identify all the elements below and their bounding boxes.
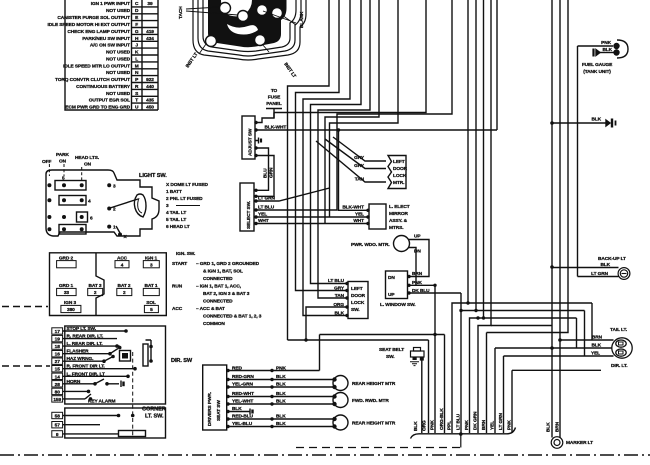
svg-text:FLASHER: FLASHER [67,349,90,355]
svg-text:LT BLU: LT BLU [456,413,462,430]
light sw slider row4 [59,225,86,235]
horizontal H340 [288,339,429,341]
dir sw blades [85,349,118,399]
LEFT DOOR LOCK MTR box [388,156,406,189]
svg-text:ORG-BLK: ORG-BLK [439,408,445,430]
svg-text:INST LT: INST LT [282,62,297,80]
svg-text:GRN: GRN [269,167,275,178]
svg-text:18: 18 [55,344,61,350]
svg-text:39: 39 [147,1,153,7]
staircase F7 to door lt blu [330,0,399,217]
svg-text:IDLE SPEED MOTOR HI EXT OUTPUT: IDLE SPEED MOTOR HI EXT OUTPUT [48,22,131,28]
horizontal H334.5 [320,335,445,371]
BLK ground wire [552,122,606,124]
svg-text:BLK: BLK [276,399,286,405]
light sw contact arm [110,199,138,208]
wire GRY 1 diagonal [333,137,386,161]
svg-text:LT GRN: LT GRN [498,412,504,430]
switch terminal dots [254,121,257,225]
svg-text:BLU: BLU [263,168,269,178]
svg-text:440: 440 [146,84,154,90]
svg-text:BRN: BRN [481,419,487,430]
IGN SW box [50,253,167,316]
ECM circuit numbers [146,1,154,111]
svg-text:J: J [135,43,138,49]
svg-text:PWR. WDO. MTR.: PWR. WDO. MTR. [351,242,390,248]
svg-text:GRY: GRY [334,286,345,292]
svg-text:DIR. SW: DIR. SW [171,358,193,364]
svg-text:5: 5 [150,307,153,313]
svg-text:NOT USED: NOT USED [106,50,131,56]
svg-text:TAIL LT.: TAIL LT. [610,327,627,333]
svg-text:3: 3 [113,184,116,190]
svg-text:LIGHT SW.: LIGHT SW. [139,173,167,179]
svg-text:BAT 2, IGN 3 & BAT 3: BAT 2, IGN 3 & BAT 3 [203,291,250,297]
svg-text:CONTINUOUS BATTERY: CONTINUOUS BATTERY [76,84,131,90]
light sw dashed drops [49,164,81,180]
IGN SW terminal labels [59,256,158,307]
svg-text:435: 435 [146,98,154,104]
svg-text:450: 450 [146,105,154,111]
svg-text:6: 6 [90,216,93,222]
svg-text:BLK-WHT: BLK-WHT [342,205,364,211]
staircase F9 to select lt blu [255,0,452,210]
DIR SW terminal boxes [52,328,63,402]
svg-text:TACH: TACH [178,6,184,19]
svg-text:IGN 1 PWR INPUT: IGN 1 PWR INPUT [91,1,130,7]
svg-text:T: T [135,98,138,104]
svg-text:BLK: BLK [276,374,286,380]
wire BRN tail [560,339,614,341]
wire BLK tail [495,347,612,349]
svg-text:MTRS.: MTRS. [389,225,403,231]
svg-text:2: 2 [94,290,97,296]
svg-text:R. FRONT DIR LT.: R. FRONT DIR LT. [67,364,105,370]
svg-text:80: 80 [55,389,61,395]
svg-text:LT. SW.: LT. SW. [145,414,164,420]
DIR SW row wires [63,331,135,399]
cluster bulb sockets [206,3,283,47]
svg-text:LT BLU: LT BLU [328,278,345,284]
wire GRY 2 diagonal [325,139,386,169]
FUEL GAUGE [578,45,614,47]
bracket labels [413,408,513,431]
svg-text:PNK: PNK [601,40,611,46]
svg-text:DOOR: DOOR [393,166,408,172]
svg-text:L. ELECT: L. ELECT [389,204,410,210]
svg-text:HORN: HORN [67,379,81,385]
svg-text:NOT USED: NOT USED [106,57,131,63]
svg-text:15: 15 [55,367,61,373]
L ELECT MIRROR box [369,204,386,229]
svg-text:DOOR: DOOR [351,293,366,299]
wire hz370 right [512,369,601,371]
wire blk-wht drop to mirror [339,130,370,210]
svg-text:BLK: BLK [276,382,286,388]
TO FUSE PANEL label [266,88,282,107]
svg-text:X DOME LT FUSED: X DOME LT FUSED [166,182,208,188]
IGN SW legend [172,251,262,327]
dashed line to ign sw [2,306,48,308]
svg-text:UP: UP [388,292,395,298]
svg-text:L. FRONT DIR. LT: L. FRONT DIR. LT [67,371,105,377]
svg-text:BLK: BLK [591,117,601,123]
svg-text:PPL: PPL [447,421,453,430]
wire YEL tail [504,355,614,357]
svg-text:BLANK: BLANK [299,11,305,28]
fuse panel connector [266,109,282,119]
svg-text:4: 4 [121,262,124,268]
svg-text:ACC: ACC [172,306,183,312]
wire WHT to mirror [255,223,369,225]
svg-text:YEL-WHT: YEL-WHT [232,399,253,405]
svg-text:YEL-GRN: YEL-GRN [232,382,254,388]
svg-text:UP: UP [414,234,421,240]
svg-text:DK GRN: DK GRN [473,411,479,430]
svg-text:MIRROR: MIRROR [389,211,408,217]
blk stub connector [247,409,253,415]
staircase F1 [288,0,330,340]
svg-text:INST LT: INST LT [185,52,200,70]
svg-text:& IGN 1, BAT, SOL: & IGN 1, BAT, SOL [203,269,243,275]
svg-text:ECM PWR GRD TO ENG GRD: ECM PWR GRD TO ENG GRD [65,105,130,111]
svg-text:HAZ WRNG.: HAZ WRNG. [67,356,94,362]
staircase F5 to door tan [318,0,370,298]
staircase F3 to door blk [303,0,350,316]
svg-text:14: 14 [55,374,61,380]
svg-text:C: C [135,1,139,7]
svg-text:BLK: BLK [602,47,612,53]
svg-text:A/C ON SW INPUT: A/C ON SW INPUT [90,43,130,49]
light sw C contact [134,194,146,217]
svg-text:IGN. SW.: IGN. SW. [176,251,195,257]
svg-text:CONNECTED: CONNECTED [203,299,233,305]
svg-text:BLK: BLK [276,414,286,420]
svg-text:NOT USED: NOT USED [106,70,131,76]
ECM table row labels [48,1,131,111]
svg-text:PARK/NEU SW INPUT: PARK/NEU SW INPUT [82,36,130,42]
svg-text:FWD. RWD. MTR: FWD. RWD. MTR [352,398,389,404]
svg-text:LEFT: LEFT [393,159,405,165]
svg-text:419: 419 [146,29,154,35]
svg-text:TAN: TAN [335,293,345,299]
svg-text:L. REAR DIR. LT.: L. REAR DIR. LT. [67,341,103,347]
svg-text:SEAT SW: SEAT SW [216,400,222,421]
svg-text:922: 922 [146,77,154,83]
svg-text:BRN: BRN [555,421,561,432]
svg-text:16: 16 [55,352,61,358]
svg-text:3: 3 [150,262,153,268]
svg-text:(TANK UNIT): (TANK UNIT) [583,69,611,75]
svg-text:2 PNL LT FUSED: 2 PNL LT FUSED [166,196,203,202]
seat wire labels [232,366,286,428]
svg-text:SEAT BELT: SEAT BELT [379,347,404,353]
svg-text:TAN: TAN [355,177,365,183]
svg-text:17: 17 [55,329,61,335]
svg-text:R. REAR DIR. LT.: R. REAR DIR. LT. [67,334,104,340]
svg-text:LOCK: LOCK [393,173,407,179]
svg-text:27: 27 [55,359,61,365]
CORNER LT SW box [65,408,166,438]
ECM connector table [65,0,158,110]
svg-text:LT GRN: LT GRN [591,271,609,277]
svg-text:BLK-WHT: BLK-WHT [265,125,287,131]
svg-text:1 BATT: 1 BATT [166,189,182,195]
staircase F2 [296,0,349,291]
svg-text:19: 19 [55,337,61,343]
svg-text:BLK: BLK [591,343,601,349]
ground connector [606,119,616,128]
instrument cluster connector [193,0,306,60]
svg-text:CANISTER PURGE SOL OUTPUT: CANISTER PURGE SOL OUTPUT [57,15,130,21]
svg-text:LEFT: LEFT [351,286,363,292]
DIR SW row labels [67,326,116,405]
svg-text:159: 159 [53,397,61,403]
svg-text:COMMON: COMMON [203,321,225,327]
dir sw slider bar [143,344,148,366]
svg-text:G: G [135,29,139,35]
svg-text:RED-WHT: RED-WHT [232,391,254,397]
svg-text:PNK: PNK [507,420,513,430]
flasher symbol [120,351,131,362]
svg-text:BLK: BLK [600,262,610,268]
staircase F4 to door org [311,0,362,284]
svg-text:PNK: PNK [276,366,286,372]
bottom dash-dot border [0,454,650,456]
wire fuse feed from top [274,0,426,113]
corner slider [119,431,146,437]
svg-text:DIR. LT.: DIR. LT. [611,363,627,369]
ADJUST SW box [242,116,255,159]
svg-text:– GRD 1, GRD 2 GROUNDED: – GRD 1, GRD 2 GROUNDED [196,261,260,267]
svg-text:9: 9 [56,432,59,438]
svg-text:LT BLU: LT BLU [258,205,275,211]
IGN SW terminal boxes [57,261,160,313]
svg-text:FUEL GAUGE: FUEL GAUGE [582,62,613,68]
svg-text:MARKER LT: MARKER LT [566,440,593,446]
svg-text:F: F [135,22,138,28]
seat motor 1 [333,376,348,391]
svg-text:DN: DN [414,249,421,255]
svg-text:434: 434 [146,36,154,42]
svg-text:IDLE SPEED MTR LO OUTPUT: IDLE SPEED MTR LO OUTPUT [63,63,130,69]
svg-text:WHT: WHT [353,218,364,224]
svg-text:ORG: ORG [422,420,428,431]
L WINDOW SW box [386,271,408,299]
svg-text:STOP LT. SW.: STOP LT. SW. [67,326,96,332]
cluster pointer lines [186,7,296,54]
svg-text:BRN: BRN [592,335,603,341]
light sw slider row2 [59,196,86,206]
svg-text:OFF: OFF [42,159,51,165]
svg-text:BLK: BLK [232,406,242,412]
bracket verticals [422,285,512,433]
svg-text:BLK: BLK [413,421,419,431]
dashed dir sw vertical [132,352,134,437]
svg-text:ORG: ORG [333,302,344,308]
right bundle verticals [552,0,578,438]
svg-text:RED: RED [232,366,242,372]
svg-text:NOT USED: NOT USED [106,8,131,14]
SELECT SW box [240,183,254,231]
svg-text:BLK: BLK [334,311,344,317]
svg-text:CHECK ENG LAMP OUTPUT: CHECK ENG LAMP OUTPUT [67,29,130,35]
svg-text:L: L [135,57,138,63]
svg-text:5 TAIL LT: 5 TAIL LT [166,217,186,223]
svg-text:FUSE: FUSE [268,95,281,101]
adjust sw connector stub [255,138,261,144]
svg-text:PANEL: PANEL [266,101,282,107]
svg-text:28: 28 [55,382,61,388]
tail light bulb [612,338,632,358]
DIR SW internals [87,329,153,401]
svg-text:380: 380 [67,307,75,313]
dir sw right column wire [146,340,152,361]
svg-text:MTR.: MTR. [393,180,404,186]
svg-text:ADJUST SW: ADJUST SW [248,128,254,156]
light sw terminal dots [47,183,122,236]
svg-text:M: M [135,63,139,69]
svg-text:X: X [124,234,128,240]
svg-text:START: START [172,261,187,267]
svg-text:RUN: RUN [172,284,183,290]
svg-text:BLK: BLK [276,391,286,397]
svg-text:BACK-UP LT: BACK-UP LT [598,256,626,262]
light sw slider row3 [77,212,88,222]
wire BLU loop [255,148,269,190]
wire TAN diagonal [316,141,386,182]
svg-text:CONNECTED & BAT 1, 2, 3: CONNECTED & BAT 1, 2, 3 [203,314,262,320]
svg-text:SW.: SW. [386,354,395,360]
seat motor 2 [333,393,348,408]
svg-text:SELECT SW.: SELECT SW. [246,201,252,229]
wire pwr wdo up loop [408,240,429,277]
svg-text:NOT USED: NOT USED [106,91,131,97]
svg-text:YEL: YEL [490,421,496,430]
wire PNK window [408,284,435,286]
ECM pin letters [135,1,139,111]
light sw slider row1 [55,181,86,191]
svg-text:REAR HEIGHT MTR: REAR HEIGHT MTR [352,421,396,427]
light switch outline [46,170,159,236]
svg-text:– ACC & BAT: – ACC & BAT [196,306,225,312]
svg-text:L. WINDOW SW.: L. WINDOW SW. [380,302,415,308]
svg-text:REAR HEIGHT MTR: REAR HEIGHT MTR [352,381,396,387]
svg-text:PARK: PARK [56,152,69,158]
corner sw wires [63,416,119,434]
bracket brace [411,428,516,439]
svg-text:4 TAIL LT: 4 TAIL LT [166,210,186,216]
svg-text:PNK: PNK [430,420,436,430]
wire YEL to mirror [255,216,369,218]
wire fuse to adjust sw [255,113,274,123]
svg-text:PNK: PNK [464,420,470,430]
svg-text:GRY: GRY [354,163,365,169]
svg-text:TORQ CONVTR CLUTCH OUTPUT: TORQ CONVTR CLUTCH OUTPUT [55,77,130,83]
svg-text:LOCK: LOCK [351,300,365,306]
svg-text:BLK: BLK [546,422,552,432]
svg-text:HEAD LTS.: HEAD LTS. [75,155,99,161]
right mesh horizontals [468,0,592,433]
svg-text:SW.: SW. [351,307,360,313]
svg-text:5: 5 [62,176,65,182]
svg-text:RED-GRN: RED-GRN [232,374,254,380]
svg-text:BLK: BLK [276,421,286,427]
svg-text:TO: TO [271,88,278,94]
horn connector [107,381,124,388]
svg-text:57: 57 [55,423,61,429]
svg-text:6 HEAD LT: 6 HEAD LT [166,224,190,230]
svg-text:DN: DN [388,275,395,281]
svg-text:YEL: YEL [591,351,600,357]
DRIVERS PWR SEAT SW box [203,365,227,430]
MARKER LT [551,437,563,449]
staircase F6 to door gry [325,0,379,224]
svg-text:CORNER: CORNER [142,407,166,413]
svg-text:– IGN 1, BAT 1, ACC,: – IGN 1, BAT 1, ACC, [196,284,242,290]
seat motor 3 [333,415,348,430]
wire pwr wdo dn [409,248,417,286]
svg-text:BRN: BRN [412,271,423,277]
svg-text:33: 33 [64,290,70,296]
Z staircase from top [452,0,491,433]
svg-text:GRY: GRY [354,155,365,161]
wire LT GRN diagonal [255,188,330,201]
svg-text:ASSY. &: ASSY. & [389,218,408,224]
svg-text:ON: ON [59,159,67,165]
wire door org row [306,307,348,340]
svg-text:ON: ON [84,162,92,168]
svg-text:3: 3 [166,203,169,209]
LEFT DOOR LOCK SW box [348,282,368,319]
svg-text:1: 1 [113,225,116,231]
svg-text:4: 4 [88,199,91,205]
svg-text:CONNECTED: CONNECTED [203,276,233,282]
wire GRN loop [255,156,274,197]
svg-text:YEL-BLU: YEL-BLU [232,421,253,427]
svg-text:OUTPUT EGR SOL: OUTPUT EGR SOL [89,98,130,104]
seat sw wires [227,371,334,427]
svg-text:DRIVERS PWR.: DRIVERS PWR. [207,392,213,426]
DIR SW box [65,326,166,404]
svg-text:2: 2 [123,290,126,296]
dashed line to dir sw [2,365,50,367]
svg-text:58: 58 [55,414,61,420]
light sw legend [166,182,208,230]
svg-text:YEL: YEL [355,212,364,218]
wire BLK-WHT [255,0,497,130]
wire DK BLU window [408,292,461,294]
